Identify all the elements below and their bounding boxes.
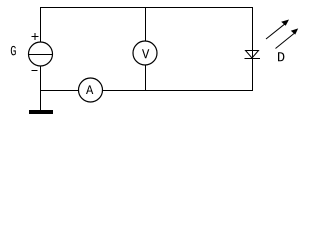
wire bottom horizontal	[40, 90, 253, 92]
source G chord	[29, 54, 53, 56]
wire left vertical from top wire through source G to ground	[40, 7, 42, 110]
ammeter A circle	[79, 78, 103, 102]
LED arrow 1 head	[281, 20, 289, 26]
LED arrow 1 shaft	[266, 24, 285, 39]
voltmeter V circle	[133, 41, 157, 65]
label D	[278, 52, 284, 61]
source G circle	[29, 42, 53, 66]
wire top horizontal	[40, 7, 253, 9]
LED arrow 2 head	[291, 28, 298, 34]
label G	[11, 46, 16, 55]
LED arrow 2 shaft	[276, 34, 295, 49]
minus polarity mark	[32, 70, 38, 72]
ground bar	[29, 110, 53, 114]
plus polarity mark	[32, 33, 39, 40]
wire right vertical (diode branch)	[252, 7, 254, 90]
label V	[142, 49, 149, 58]
diode D triangle (anode)	[246, 51, 259, 59]
diode D cathode bar	[245, 58, 261, 60]
wire middle vertical (voltmeter branch)	[145, 7, 147, 90]
label A	[86, 85, 93, 94]
